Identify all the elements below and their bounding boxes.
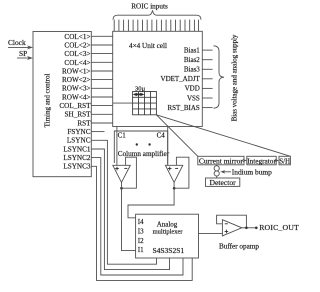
label Buffer opamp (219, 242, 259, 250)
wire Bias3 (202, 68, 212, 70)
svg-text:C1: C1 (118, 132, 127, 140)
svg-text:COL<1>: COL<1> (64, 33, 90, 41)
wire feedback A4 (174, 157, 189, 188)
brace bias supply (214, 46, 225, 108)
detector block (206, 178, 240, 186)
wire C4 column (167, 127, 169, 166)
wire COL3 (91, 53, 112, 55)
wire VSS (202, 97, 212, 99)
wire feedback U3 (217, 215, 247, 228)
svg-text:I3: I3 (138, 228, 144, 236)
wire A1 output to mux I1 (122, 182, 136, 250)
svg-text:Current mirror: Current mirror (199, 157, 243, 166)
pin plus A4 (168, 167, 172, 171)
wire RST (91, 122, 112, 124)
junction dot A4 output (173, 187, 176, 190)
current mirror block (198, 156, 244, 165)
wire indium bump pointer (220, 170, 231, 174)
wire Clock with arrowhead (8, 45, 33, 49)
junction dots columns 2-3 (136, 143, 151, 145)
pixel cell 4x4 grid (133, 92, 157, 115)
svg-text:C4: C4 (157, 132, 166, 140)
svg-text:Indium bump: Indium bump (232, 168, 272, 177)
wire mirror to bump (216, 165, 218, 166)
svg-text:Bias2: Bias2 (184, 56, 200, 64)
wire LSYNC3 to mux S1 (91, 166, 192, 280)
wire LSYNC1 to mux S3 (91, 149, 169, 270)
svg-text:Bias voltage and analog supply: Bias voltage and analog supply (231, 34, 239, 121)
dimension arrow 30u (133, 93, 145, 96)
wire RST_BIAS (202, 107, 212, 109)
pin minus A4 (175, 167, 178, 169)
wire zoom callout left diagonal (156, 115, 197, 157)
pin labels of timing block (59, 33, 91, 171)
svg-text:VDET_ADJT: VDET_ADJT (161, 75, 201, 83)
label Analog multiplexer (153, 220, 184, 235)
svg-text:ROW<1>: ROW<1> (62, 67, 90, 75)
svg-text:SH_RST: SH_RST (65, 111, 92, 119)
label Current mirror (199, 157, 243, 166)
label ROIC_OUT (259, 223, 299, 232)
junction dot A1 output (120, 187, 123, 190)
svg-text:multiplexer: multiplexer (153, 228, 184, 235)
wire feedback A1 (122, 157, 137, 188)
svg-text:ROIC inputs: ROIC inputs (131, 2, 168, 10)
op-amp A1 column amplifier 1 (113, 165, 131, 182)
indium bump ball 1 (214, 166, 219, 171)
wire mux output (199, 232, 223, 234)
unit cell array block (113, 31, 203, 126)
wire buffer output (242, 227, 256, 229)
wire VDET_ADJT (202, 78, 212, 80)
analog multiplexer block (136, 214, 199, 258)
wire COL_RST (91, 105, 112, 107)
sample and hold block (279, 156, 290, 165)
pin minus U3 (225, 223, 228, 225)
node SP input (19, 49, 27, 58)
svg-text:RST: RST (77, 119, 91, 127)
wire COL4 (91, 61, 112, 63)
svg-text:I2: I2 (138, 237, 144, 245)
svg-text:COL<2>: COL<2> (64, 42, 90, 50)
wire Bias2 (202, 59, 212, 61)
op-amp A4 column amplifier 4 (165, 165, 182, 182)
label Integrator (247, 157, 276, 166)
wire ROW3 (91, 87, 112, 89)
svg-text:VDD: VDD (185, 85, 200, 93)
wire bump to detector (216, 176, 218, 178)
node C1 (118, 132, 127, 140)
svg-text:Timing and control: Timing and control (44, 74, 52, 128)
junction dot feedback (245, 227, 248, 230)
label 30u (135, 85, 146, 92)
wire COL2 (91, 44, 112, 46)
svg-text:LSYNC3: LSYNC3 (63, 163, 91, 171)
label Bias voltage and analog supply (231, 34, 239, 121)
wire ROW2 (91, 79, 112, 81)
svg-text:Analog: Analog (157, 220, 178, 228)
svg-text:RST_BIAS: RST_BIAS (168, 104, 200, 112)
wire arrow to integrator (242, 159, 247, 162)
pin minus A1 (124, 167, 127, 169)
svg-text:Buffer opamp: Buffer opamp (219, 242, 259, 250)
pin labels I4 I3 I2 I1 (138, 218, 144, 254)
pin plus A1 (115, 167, 119, 171)
svg-text:Bias3: Bias3 (184, 66, 200, 74)
svg-text:COL<4>: COL<4> (64, 59, 90, 67)
label Timing and control (44, 74, 52, 128)
label Indium bump with arrow (232, 168, 272, 177)
label ROIC inputs (131, 2, 168, 10)
svg-text:Integrator: Integrator (247, 157, 276, 166)
svg-text:LSYNC1: LSYNC1 (63, 145, 91, 153)
svg-text:SP: SP (19, 49, 27, 58)
label Detector (210, 178, 237, 187)
wire LSYNC2 to mux S2 (91, 158, 183, 275)
node C4 (157, 132, 166, 140)
wire A4 output to mux I4 (128, 182, 174, 217)
integrator block (247, 156, 276, 165)
pin plus U3 (225, 230, 229, 234)
svg-text:S/H: S/H (279, 158, 290, 165)
svg-text:VSS: VSS (187, 94, 200, 102)
indium bump ball 2 (214, 171, 219, 176)
svg-text:LSYNC: LSYNC (67, 137, 91, 145)
wire COL1 (91, 35, 112, 37)
svg-text:LSYNC2: LSYNC2 (63, 154, 91, 162)
wire Bias1 (202, 49, 212, 51)
wire C1 column (116, 127, 118, 166)
timing and control block U-TC (33, 32, 91, 177)
svg-text:I1: I1 (138, 246, 144, 254)
svg-text:ROW<4>: ROW<4> (62, 93, 90, 101)
label Column amplifier (118, 150, 170, 158)
op-amp U3 buffer (222, 220, 241, 236)
svg-text:I4: I4 (138, 218, 144, 226)
wire SH_RST (91, 113, 112, 115)
svg-text:COL_RST: COL_RST (59, 102, 91, 110)
svg-text:Clock: Clock (8, 38, 26, 47)
pin labels bias and supply (161, 46, 201, 112)
node ROIC_OUT terminal dot (255, 227, 258, 230)
wire zoom callout right diagonal (156, 115, 290, 157)
svg-text:ROW<2>: ROW<2> (62, 76, 90, 84)
svg-text:4×4 Unit cell: 4×4 Unit cell (129, 42, 167, 50)
svg-text:FSYNC: FSYNC (67, 128, 90, 136)
label 4x4 Unit cell (129, 42, 167, 50)
wire arrow to S/H (275, 159, 280, 162)
svg-text:S4S3S2S1: S4S3S2S1 (152, 246, 184, 255)
svg-text:Detector: Detector (210, 178, 237, 187)
wire LSYNC to mux S4 (91, 140, 156, 264)
wire VDD (202, 87, 212, 89)
label S/H (279, 158, 290, 165)
ROIC input pin ticks (114, 20, 198, 32)
wire row feed to grid (113, 102, 133, 104)
wire SP with arrowhead (17, 56, 33, 60)
svg-text:30μ: 30μ (135, 85, 146, 92)
wire FSYNC stub (91, 131, 104, 133)
column amplifier block outline (114, 131, 167, 165)
svg-text:ROIC_OUT: ROIC_OUT (259, 223, 299, 232)
svg-text:ROW<3>: ROW<3> (62, 85, 90, 93)
svg-text:COL<3>: COL<3> (64, 50, 90, 58)
svg-text:Bias1: Bias1 (184, 46, 200, 54)
brace over ROIC inputs (113, 10, 201, 19)
pin label S4S3S2S1 (152, 246, 184, 255)
node Clock input (8, 38, 26, 47)
wire ROW4 (91, 96, 112, 98)
wire ROW1 (91, 70, 112, 72)
